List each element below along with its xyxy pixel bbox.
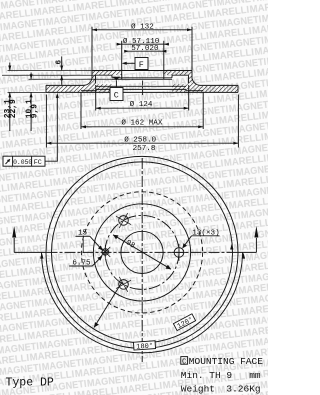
FCF cell divider 2 (31, 156, 33, 166)
svg-text:6.75: 6.75 (72, 260, 91, 268)
angle arc r100 (42, 252, 243, 353)
inner recess line 1 (96, 85, 186, 87)
boss bottom line 1 (112, 77, 172, 79)
datum C stem (115, 80, 117, 87)
dim 6 lower line (61, 75, 63, 85)
svg-text:C: C (182, 358, 186, 366)
bottom-right notes (181, 356, 263, 395)
dimension Ø57.110 dim line (117, 43, 170, 45)
dim 6 down arrow (60, 66, 63, 71)
bolt hole bottom radial tick (119, 277, 128, 292)
dim 98 upper arrow (113, 235, 119, 240)
hatch left ring (46, 71, 122, 92)
dimension 57.020 dim line (125, 50, 167, 52)
dimension Ø258 left arrow (46, 142, 51, 145)
section arrow left (12, 226, 16, 238)
dimension Ø162MAX dim line (81, 126, 203, 128)
runout FCF box (3, 156, 45, 166)
dimension Ø132 dim line (92, 29, 192, 31)
bolt hole right radial tick (171, 251, 188, 253)
dimension Ø132 left arrow (92, 28, 97, 31)
dim 13(x3) leader (183, 236, 192, 248)
svg-text:C: C (114, 91, 119, 101)
arc end arrow right (242, 253, 245, 259)
dimension Ø124 dim line (96, 107, 189, 109)
hat inner wall right (188, 75, 190, 83)
dim 13(x3) underline (192, 235, 220, 237)
horizontal centerline right solid (238, 251, 257, 253)
dim 23,1/22,9 down arrow (8, 66, 11, 71)
dim 23,1/22,9 line upper (9, 63, 11, 71)
section arrow right (254, 226, 258, 238)
dimension Ø57.110 right arrow (outside) (164, 43, 169, 46)
extension line Ø132 right (191, 27, 193, 71)
dim 6 line (61, 56, 63, 70)
dim 15 leader arrow (98, 245, 103, 250)
horizontal centerline left solid (14, 251, 46, 253)
angle label 180 box (133, 341, 155, 352)
hatch right ring (164, 71, 238, 92)
extension line bore right (163, 41, 165, 71)
dimension Ø258 dim line (46, 142, 238, 144)
bore edge left (121, 71, 123, 80)
datum F leader arrow (122, 62, 127, 65)
datum C box (110, 88, 123, 101)
dimension Ø124 right arrow (184, 107, 189, 110)
extension line Ø132 left (91, 27, 93, 71)
plate bottom ext (2, 74, 96, 76)
hat plate bottom left (96, 74, 113, 76)
hat outer wall right (191, 71, 193, 79)
section centerline (142, 81, 144, 97)
extension line Ø124 left (95, 85, 97, 111)
extension line Ø258 left (45, 95, 47, 148)
svg-text:9,9: 9,9 (31, 104, 40, 118)
ring bottom step right (186, 90, 203, 92)
svg-text:FC: FC (34, 159, 42, 167)
dim 6.75 underline (69, 265, 92, 267)
bolt hole top radial tick (119, 213, 128, 228)
hat plate bottom right (172, 74, 189, 76)
dim 23,1/22,9 up arrow (8, 92, 11, 97)
boss step left (111, 75, 113, 78)
svg-text:257.8: 257.8 (133, 145, 156, 153)
vertical centerline (141, 158, 143, 362)
svg-text:MOUNTING FACE: MOUNTING FACE (189, 356, 263, 367)
ring bottom step left (81, 90, 96, 92)
dimension Ø124 left arrow (96, 107, 101, 110)
dimension 57.020 right arrow (outside) (161, 50, 166, 53)
bolt hole right (174, 248, 184, 258)
circle hat Ø132 (93, 204, 190, 301)
hat inner wall left (95, 75, 97, 83)
dimension Ø258 right arrow (233, 142, 238, 145)
svg-text:Ø 124: Ø 124 (130, 100, 153, 109)
datum C ref box (181, 357, 188, 365)
svg-text:6: 6 (56, 60, 64, 65)
ring bottom ext (8, 91, 47, 93)
dimension Ø57.110 left arrow (outside) (117, 43, 122, 46)
datum F box (135, 58, 148, 70)
dim 10,1/9,9 line upper (30, 73, 32, 80)
outer circle Ø258 (46, 156, 238, 348)
datum F leader (125, 62, 136, 64)
small arrow on chamfer circle right (230, 244, 233, 250)
ring top left (46, 84, 84, 86)
dim 15 ext line (82, 239, 84, 253)
extension line bore left (121, 41, 123, 71)
ring OD edge left (45, 85, 47, 92)
dim 10,1/9,9 line lower (30, 92, 32, 131)
hat top surface (92, 70, 192, 72)
radial line 240deg (94, 282, 122, 328)
inner recess line 2 (96, 88, 186, 90)
bolt hole bottom tangential tick (116, 280, 131, 288)
svg-text:180°: 180° (136, 342, 153, 352)
dimension 57.020 left arrow (outside) (124, 50, 129, 53)
mounting face ext (29, 78, 113, 80)
extension line Ø258 right (237, 95, 239, 148)
locating hole hatch (103, 250, 108, 256)
fillet left (84, 78, 92, 85)
FCF runout symbol (6, 159, 11, 164)
dim 15 underline (75, 235, 90, 237)
locating hole vertical tick (104, 245, 106, 259)
radial line arrow (94, 322, 99, 327)
bore edge right (163, 71, 165, 80)
arc end arrow left (40, 253, 43, 259)
dim 10,1/9,9 up arrow (30, 92, 33, 97)
dimension Ø132 right arrow (187, 28, 192, 31)
boss bottom line 2 (112, 78, 172, 80)
ring bottom (46, 91, 238, 93)
extension lines for left dims: hat top ext (8, 70, 93, 72)
svg-text:22,9: 22,9 (9, 99, 18, 118)
FCF leader arrow (56, 93, 59, 98)
bolt hole right tangential tick (178, 244, 180, 261)
bolt hole bottom (119, 280, 129, 290)
dimension Ø162MAX right arrow (198, 125, 203, 128)
angle label 120 box (173, 314, 196, 332)
svg-text:13(×3): 13(×3) (192, 230, 219, 238)
horizontal centerline dashes (47, 251, 238, 253)
svg-text:0.050: 0.050 (13, 159, 32, 166)
circle chamfer (52, 162, 233, 343)
locating hole diag ticks (100, 247, 110, 257)
dim 6.75 leader (92, 257, 101, 266)
svg-text:Weight 3.26Kg: Weight 3.26Kg (181, 384, 261, 395)
svg-text:57.020: 57.020 (131, 45, 159, 53)
datum C triangle (113, 77, 120, 81)
dim 6 up arrow (60, 75, 63, 80)
dim 10,1/9,9 down arrow (30, 74, 33, 79)
fillet right (192, 78, 200, 85)
dimension Ø162MAX left arrow (81, 125, 86, 128)
boss step right (171, 75, 173, 78)
FCF cell divider 1 (12, 156, 14, 166)
locating hole (102, 249, 108, 255)
svg-text:Ø 258.0: Ø 258.0 (124, 136, 156, 145)
FCF leader (45, 96, 57, 162)
dim 6.75 leader arrow (97, 256, 102, 261)
extension line Ø162 right (202, 92, 204, 129)
svg-text:Ø 162 MAX: Ø 162 MAX (121, 119, 162, 128)
dim 98 line (113, 235, 171, 269)
dim 15 leader (90, 236, 102, 249)
dim 13(x3) leader arrow (182, 243, 187, 248)
bolt hole top (119, 216, 129, 226)
svg-text:F: F (139, 60, 144, 70)
extension line Ø124 right (188, 85, 190, 111)
svg-text:Ø 132: Ø 132 (131, 22, 154, 31)
bolt hole top tangential tick (116, 216, 131, 224)
dashed circle Ø162 (81, 192, 202, 313)
svg-text:15: 15 (78, 229, 88, 237)
extension line Ø162 left (80, 92, 82, 129)
bore circle Ø57 (121, 231, 163, 273)
bolt circle Ø98 dash-dot (105, 215, 179, 289)
ring top right (200, 84, 238, 86)
svg-text:Min. TH 9 mm: Min. TH 9 mm (181, 370, 261, 381)
hat outer wall left (91, 71, 93, 79)
dim 98 lower arrow (166, 265, 172, 270)
svg-text:Type DP: Type DP (6, 377, 54, 390)
dim 23,1/22,9 line lower (9, 92, 11, 131)
ring OD edge right (237, 85, 239, 92)
